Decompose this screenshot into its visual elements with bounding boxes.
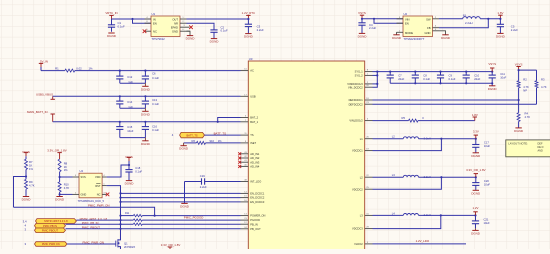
power port USB0_VBUS xyxy=(36,93,55,100)
resistor R1 0.02 1% xyxy=(55,66,93,72)
svg-text:1.8V: 1.8V xyxy=(472,113,478,117)
svg-text:OUT: OUT xyxy=(172,17,178,21)
pin stubs U4 xyxy=(73,175,107,194)
wire R8 junction to U4 SVS xyxy=(59,172,73,182)
resistor R4 4.7K xyxy=(517,100,530,122)
wire VDCDC1 feedback xyxy=(373,139,442,151)
svg-text:10uF: 10uF xyxy=(484,221,490,225)
svg-text:2.2uF: 2.2uF xyxy=(200,185,207,189)
node junction VRTC xyxy=(131,18,133,20)
ground DGND C2 xyxy=(210,39,220,44)
svg-text:R11: R11 xyxy=(125,212,130,215)
svg-text:AD_IN1: AD_IN1 xyxy=(250,152,260,156)
svg-text:GND: GND xyxy=(172,30,178,34)
net label PMIC_PWR_ON bottom xyxy=(83,240,105,244)
transistor Q1 2N7002 xyxy=(114,238,136,249)
svg-text:DGND: DGND xyxy=(141,112,151,116)
power port 1.2V_RTC xyxy=(242,11,255,20)
wire PB_IN row xyxy=(66,223,134,225)
svg-text:R9: R9 xyxy=(29,180,33,184)
svg-text:FB: FB xyxy=(427,26,431,30)
svg-text:10uF: 10uF xyxy=(484,144,490,148)
svg-text:C13: C13 xyxy=(152,98,157,102)
svg-text:AC: AC xyxy=(250,69,254,73)
ground DGND row2 xyxy=(141,108,151,116)
svg-text:U2: U2 xyxy=(404,12,408,16)
svg-text:VDCDC2: VDCDC2 xyxy=(352,187,363,191)
svg-text:SYS_2: SYS_2 xyxy=(355,73,364,77)
svg-text:0.1uF: 0.1uF xyxy=(152,102,159,106)
svg-text:VDCDC1: VDCDC1 xyxy=(352,149,363,153)
svg-text:RST: RST xyxy=(95,184,101,188)
net label MSTR_nRST_3.3_1.8 xyxy=(80,217,108,221)
power port MAIN_BATT_IN xyxy=(27,110,55,122)
wire PWR_ON to Q1 gate xyxy=(67,243,114,245)
inductor L4 2.2uH xyxy=(392,211,431,217)
svg-text:NP: NP xyxy=(523,88,527,92)
resistor R3 4.7K xyxy=(535,78,547,89)
svg-text:USB: USB xyxy=(250,94,256,98)
resistor R15 PGOOD row xyxy=(133,219,240,221)
svg-text:GND: GND xyxy=(81,192,87,196)
wire POWER_ON route xyxy=(14,207,241,217)
svg-text:GND: GND xyxy=(425,31,431,35)
op-amp U4 TPS3808 supervisor body xyxy=(78,169,105,203)
power port 3.3V_OR_1.8V bottom xyxy=(161,243,181,249)
ground DGND R4 xyxy=(514,128,524,133)
svg-text:EPAD: EPAD xyxy=(171,26,178,30)
svg-text:DGND: DGND xyxy=(141,142,151,146)
wire U1 GND down xyxy=(187,31,191,35)
wire U2 FB feedback xyxy=(439,19,488,28)
svg-text:AND: AND xyxy=(538,150,543,153)
svg-text:DEFDCDC1: DEFDCDC1 xyxy=(349,98,364,102)
svg-text:MODE: MODE xyxy=(405,31,413,35)
svg-text:VSYS: VSYS xyxy=(22,150,30,154)
svg-text:1K: 1K xyxy=(29,163,32,167)
capacitor C17 10uF xyxy=(472,139,490,153)
svg-text:AD_IN4: AD_IN4 xyxy=(250,164,260,168)
wire R9 to ground xyxy=(25,189,27,196)
svg-text:NR: NR xyxy=(174,22,178,26)
svg-text:2.2uF: 2.2uF xyxy=(257,28,264,32)
svg-text:U4: U4 xyxy=(80,169,84,173)
svg-text:DGND: DGND xyxy=(392,36,402,40)
resistor R10 4.7K xyxy=(58,182,69,192)
resistor R2 4.7K NP xyxy=(517,78,529,93)
power port 1.2V xyxy=(473,206,479,215)
harness port MSTR_nRST xyxy=(36,219,77,224)
svg-text:R1: R1 xyxy=(55,66,59,70)
capacitor C2 0.1uF xyxy=(210,25,228,39)
svg-text:DGND: DGND xyxy=(186,37,196,41)
wire L3 pin to L4 coil xyxy=(373,214,404,216)
ground DGND C1 xyxy=(107,33,117,38)
no-connect X U4 NC xyxy=(106,193,110,197)
svg-text:22uF: 22uF xyxy=(474,77,480,81)
ground DGND R9 xyxy=(22,197,32,202)
svg-text:Q1: Q1 xyxy=(124,241,128,245)
svg-text:0.1uF: 0.1uF xyxy=(152,128,159,132)
ground DGND R10 xyxy=(55,197,65,202)
svg-text:DGND: DGND xyxy=(471,154,481,158)
resistor R5 0 xyxy=(402,116,425,122)
svg-text:4.7K: 4.7K xyxy=(525,115,531,119)
net label PMIC_PWR_ON mid xyxy=(88,203,110,207)
ground DGND U1 xyxy=(186,36,196,41)
svg-text:BATT_TS: BATT_TS xyxy=(186,133,197,137)
wire PBOUT row xyxy=(66,228,241,230)
wire U1 OUT to 1.2V_RTC xyxy=(187,18,249,20)
resistor R14 on POWER_ON row xyxy=(119,212,154,217)
capacitor C13 0.1uF xyxy=(142,96,160,108)
capacitor C9 0.1uF xyxy=(437,71,456,85)
svg-text:PB_OUT: PB_OUT xyxy=(250,227,261,231)
svg-text:C8: C8 xyxy=(423,74,427,78)
svg-text:EN_DCDC1: EN_DCDC1 xyxy=(250,191,265,195)
wire VINLDO to R5 xyxy=(373,120,409,122)
capacitor C10 22uF xyxy=(463,71,481,85)
capacitor C4 2.2uF xyxy=(358,19,376,33)
svg-text:DGND: DGND xyxy=(179,147,189,151)
wire 5V_IN to R1 xyxy=(41,70,65,72)
net label PMIC_PB_IN xyxy=(82,221,99,225)
wire BATT_TS to TS pin xyxy=(205,132,241,136)
svg-text:U3: U3 xyxy=(249,57,253,61)
svg-text:DGND: DGND xyxy=(496,34,506,38)
svg-text:TS: TS xyxy=(250,133,254,137)
wire C19 to ground xyxy=(184,182,186,204)
wire VLDO2 to 1.2V_LDO xyxy=(373,243,467,245)
wire EN_DCDC3 xyxy=(119,201,240,203)
inductor L2 2.2uH xyxy=(392,135,431,141)
svg-text:VSYS: VSYS xyxy=(358,11,366,15)
svg-text:EN_DCDC2: EN_DCDC2 xyxy=(250,196,265,200)
ground DGND C18 xyxy=(125,181,135,186)
svg-text:C9: C9 xyxy=(449,74,453,78)
wire R7 R9 junction xyxy=(14,170,28,208)
svg-text:DGND: DGND xyxy=(471,191,481,195)
power port 3.3V_OR_1.8V output xyxy=(466,168,486,177)
svg-text:C12: C12 xyxy=(127,75,132,79)
svg-text:C19: C19 xyxy=(200,174,205,178)
resistor R7 1K 1% xyxy=(25,159,34,171)
svg-text:0.02: 0.02 xyxy=(76,66,82,70)
svg-text:AD_IN2: AD_IN2 xyxy=(250,156,260,160)
resistor R9 4.7K xyxy=(25,179,35,189)
svg-text:1.2V_LDO: 1.2V_LDO xyxy=(416,239,430,243)
svg-text:PB_IN: PB_IN xyxy=(250,222,258,226)
no-connect X U1 EPAD xyxy=(189,25,193,29)
svg-text:U1: U1 xyxy=(152,12,156,16)
svg-text:DGND: DGND xyxy=(441,36,451,40)
power port 1.8V LDO input xyxy=(472,113,478,121)
pin stubs U3 right with numbers and names xyxy=(347,70,372,246)
wire VDCDC3 feedback xyxy=(373,215,441,228)
wire PGOOD row xyxy=(76,219,133,221)
power port VSYS caps xyxy=(488,62,496,72)
svg-text:0.1uF: 0.1uF xyxy=(449,77,456,81)
wire branch to BAT_2 pin xyxy=(218,118,241,122)
svg-text:C11: C11 xyxy=(500,72,505,76)
capacitor C15 10uF xyxy=(116,122,134,138)
svg-text:L2: L2 xyxy=(392,135,395,139)
wire C11 to ground xyxy=(491,83,493,85)
power port VSYS U4 xyxy=(125,155,133,165)
pin stubs U1 right xyxy=(180,17,190,31)
resistor R16 PB_IN row xyxy=(133,223,240,225)
ground DGND C23 xyxy=(471,228,481,235)
svg-text:VSYS: VSYS xyxy=(515,62,523,66)
svg-text:BATT_TS: BATT_TS xyxy=(214,132,227,136)
svg-text:MAIN_BATT_IN: MAIN_BATT_IN xyxy=(27,110,48,114)
wire VSYS to U2 VIN xyxy=(362,18,403,20)
ground DGND U2 MODE xyxy=(392,35,402,40)
svg-text:4.7K: 4.7K xyxy=(541,85,547,89)
svg-text:DGND: DGND xyxy=(514,129,524,133)
svg-text:0.1uF: 0.1uF xyxy=(118,24,125,28)
svg-text:5V_IN: 5V_IN xyxy=(40,60,48,64)
svg-text:2N7002X: 2N7002X xyxy=(124,245,135,249)
svg-text:L4: L4 xyxy=(392,211,395,215)
svg-text:C15: C15 xyxy=(127,125,132,129)
ground DGND C11 xyxy=(488,86,498,91)
svg-text:4.7K: 4.7K xyxy=(523,85,529,89)
svg-text:USB0_VBUS: USB0_VBUS xyxy=(36,93,53,97)
wire R10 to ground xyxy=(59,192,61,196)
svg-text:4.7K: 4.7K xyxy=(29,184,35,188)
wire DEFDCDC2 to R3 xyxy=(373,88,537,104)
wire INT_LDO to C19 xyxy=(205,181,241,183)
harness port BATT_TS xyxy=(172,132,205,137)
svg-text:2.2uF: 2.2uF xyxy=(511,28,518,32)
svg-text:L1: L1 xyxy=(463,13,467,17)
svg-text:R6: R6 xyxy=(192,139,196,143)
svg-text:TPS3808G01_DCK_5: TPS3808G01_DCK_5 xyxy=(78,199,105,203)
svg-text:PMIC_PGOOD: PMIC_PGOOD xyxy=(184,216,204,220)
no-connect X U1 NC xyxy=(143,29,147,33)
capacitor C19 2.2uF horizontal xyxy=(185,174,208,189)
svg-text:DEFDCDC2: DEFDCDC2 xyxy=(349,102,364,106)
svg-text:4.7K: 4.7K xyxy=(64,186,70,190)
wire U4 GND to R10 ground xyxy=(60,193,73,195)
svg-text:SYS_1: SYS_1 xyxy=(355,70,364,74)
wire VSYS to U4 VDD xyxy=(107,164,131,177)
svg-text:1%: 1% xyxy=(29,167,33,171)
svg-text:2.2uF: 2.2uF xyxy=(369,26,376,30)
svg-text:0.1uF: 0.1uF xyxy=(135,169,142,173)
svg-text:PGOOD: PGOOD xyxy=(250,218,260,222)
svg-text:SVS: SVS xyxy=(81,175,86,179)
svg-text:TPS79912: TPS79912 xyxy=(152,37,166,41)
wire cap commons row3 xyxy=(120,137,146,139)
harness port PMIC_PB_IN xyxy=(35,223,66,228)
inductor L1 2.2uH xyxy=(463,13,481,25)
wire VSYS to R2 R3 tops xyxy=(518,69,537,81)
node junction U2 EN xyxy=(373,18,375,20)
sheet entry numbers 3 4 xyxy=(23,220,27,232)
svg-text:POWER_ON: POWER_ON xyxy=(250,214,265,218)
harness port PMIC_PWR_ON xyxy=(24,242,67,247)
svg-text:R5: R5 xyxy=(402,116,406,120)
svg-text:DGND: DGND xyxy=(125,182,135,186)
power port VSYS pullups xyxy=(515,62,523,70)
svg-text:DGND: DGND xyxy=(358,34,368,38)
svg-text:VLDO2: VLDO2 xyxy=(354,242,363,246)
op-amp U3 PMIC body xyxy=(248,57,364,253)
wire VDCDC2 feedback xyxy=(373,177,442,189)
svg-text:DGND: DGND xyxy=(471,231,481,235)
svg-text:R2: R2 xyxy=(523,78,527,82)
pin stubs U2 xyxy=(397,17,440,33)
svg-text:DGND: DGND xyxy=(488,87,498,91)
svg-text:0.1uF: 0.1uF xyxy=(221,29,228,33)
power port VSYS divider1 xyxy=(22,150,30,159)
power port 5V_IN xyxy=(39,60,48,71)
svg-text:EN: EN xyxy=(405,22,409,26)
wire R6 to ISET pin xyxy=(206,142,241,144)
layout note box xyxy=(506,140,550,157)
svg-text:1%: 1% xyxy=(89,66,94,70)
svg-text:BAT_2: BAT_2 xyxy=(250,116,258,120)
wire cap commons row2 xyxy=(120,107,146,109)
svg-text:VSYS: VSYS xyxy=(125,155,133,159)
ground DGND U2 GND xyxy=(441,35,451,40)
svg-text:PMIC PB IN: PMIC PB IN xyxy=(43,224,57,228)
svg-text:0.1uF: 0.1uF xyxy=(152,76,159,80)
svg-text:INT_LDO: INT_LDO xyxy=(250,180,261,184)
capacitor C16 0.1uF xyxy=(142,122,160,138)
wire ISET left xyxy=(184,142,197,144)
svg-text:3.3V_OR_1.8V: 3.3V_OR_1.8V xyxy=(466,168,486,172)
svg-text:22uF: 22uF xyxy=(398,77,404,81)
svg-text:ISET: ISET xyxy=(250,141,256,145)
ground DGND row1 xyxy=(141,83,151,91)
wire U2 SW to L1 xyxy=(439,18,463,20)
svg-text:SW: SW xyxy=(426,17,431,21)
svg-text:C6: C6 xyxy=(152,72,156,76)
capacitor C1 0.1uF xyxy=(108,19,125,32)
net label 1.2V_LDO xyxy=(416,239,430,243)
svg-text:1.2V_RTC: 1.2V_RTC xyxy=(242,11,255,15)
svg-text:VSYS: VSYS xyxy=(488,62,496,66)
svg-text:MSTR nRST 3.3 1.8: MSTR nRST 3.3 1.8 xyxy=(44,219,68,223)
svg-text:VDCDC3: VDCDC3 xyxy=(352,227,363,231)
svg-text:EN: EN xyxy=(153,22,157,26)
svg-text:1K: 1K xyxy=(64,165,67,169)
capacitor C3 2.2uF xyxy=(245,19,264,33)
svg-text:3.3V_OR_1.8V: 3.3V_OR_1.8V xyxy=(47,149,67,153)
svg-text:DGND: DGND xyxy=(210,40,220,44)
svg-text:L3: L3 xyxy=(392,173,395,177)
svg-text:R3: R3 xyxy=(541,78,545,82)
ground DGND C3 xyxy=(244,34,254,39)
wire R1 to AC pin xyxy=(75,70,241,72)
svg-text:10uF: 10uF xyxy=(500,75,506,79)
svg-text:NC: NC xyxy=(97,192,101,196)
wire SYS rail bracket xyxy=(373,71,493,88)
svg-text:VIN: VIN xyxy=(405,17,410,21)
wire SYS bottom rail xyxy=(390,82,492,84)
capacitor C7 22uF xyxy=(387,71,405,84)
ground DGND row3 xyxy=(141,138,151,146)
svg-text:PMIC PBOUT: PMIC PBOUT xyxy=(42,229,59,233)
resistor R6 910 1% xyxy=(192,139,223,144)
svg-text:C18: C18 xyxy=(135,166,140,170)
wire U4 RST to EN_DCDC bus xyxy=(107,186,122,238)
pin stubs U1 left xyxy=(145,17,152,31)
svg-text:DGND: DGND xyxy=(180,204,190,208)
capacitor C18 0.1uF xyxy=(125,165,142,180)
wire USB0_VBUS to USB pin xyxy=(53,95,241,97)
svg-text:VRTC_IN: VRTC_IN xyxy=(105,11,117,15)
svg-text:10uF: 10uF xyxy=(484,183,490,187)
svg-text:C7: C7 xyxy=(398,74,402,78)
ground DGND C17 xyxy=(471,153,481,158)
svg-text:EN_DCDC3: EN_DCDC3 xyxy=(250,200,265,204)
capacitor C12 1uF xyxy=(116,71,133,84)
svg-text:R4: R4 xyxy=(525,112,529,116)
wire R5 to 1.8V xyxy=(418,120,475,122)
ground DGND C20 xyxy=(471,190,481,195)
capacitor C6 0.1uF xyxy=(142,71,160,84)
resistor R8 1K 1% xyxy=(58,159,68,172)
svg-text:C17: C17 xyxy=(484,141,489,145)
capacitor C20 10uF xyxy=(472,177,490,190)
wire EN_DCDC2 xyxy=(119,197,240,199)
svg-text:1%: 1% xyxy=(64,168,68,172)
svg-text:TPS62230DRYT: TPS62230DRYT xyxy=(404,37,425,41)
power port VRTC_IN xyxy=(105,11,117,19)
wire L1 to 1.8V output xyxy=(480,18,500,20)
svg-text:DGND: DGND xyxy=(141,87,151,91)
wire L2 to 3.3V node xyxy=(419,138,477,140)
svg-text:PMIC PWR ON: PMIC PWR ON xyxy=(42,242,60,246)
svg-text:DGND: DGND xyxy=(55,198,65,202)
wire cap commons row1 xyxy=(120,82,146,84)
power port VSYS U2 xyxy=(358,11,366,20)
svg-text:C10: C10 xyxy=(474,74,479,78)
svg-text:VIN_DCDC2: VIN_DCDC2 xyxy=(348,85,363,89)
capacitor C14 1uF xyxy=(116,96,133,109)
svg-text:LAYOUT NOTE:: LAYOUT NOTE: xyxy=(508,142,528,146)
wire U1 NR to C2 xyxy=(187,23,215,25)
wire EN_DCDC1 xyxy=(119,192,240,194)
svg-text:DGND: DGND xyxy=(107,34,117,38)
svg-text:1.8V: 1.8V xyxy=(497,11,503,15)
wire DEFDCDC1 to R2 R4 xyxy=(373,88,520,101)
svg-text:VINLDO1/2: VINLDO1/2 xyxy=(349,119,363,123)
svg-text:2.2uH: 2.2uH xyxy=(465,21,472,25)
svg-text:R8: R8 xyxy=(64,161,68,165)
op-amp U1 TPS79912 regulator body xyxy=(151,12,180,41)
svg-text:BAT_1: BAT_1 xyxy=(250,120,258,124)
ground DGND C19 xyxy=(180,203,190,208)
svg-text:AD_IN3: AD_IN3 xyxy=(250,160,260,164)
ground DGND C4 xyxy=(358,33,368,38)
capacitor C8 0.1uF xyxy=(412,71,431,85)
wire U2 MODE to ground xyxy=(396,32,398,34)
power port 1.8V U2 output xyxy=(497,11,503,20)
no-connect X AD_IN pins xyxy=(238,152,241,168)
capacitor C21 10uF xyxy=(472,215,490,228)
wire L4 to 1.2V node xyxy=(419,214,477,216)
wire L1 pin to L2 coil xyxy=(373,138,404,140)
wire VRTC_IN to U1 IN xyxy=(112,18,152,20)
svg-text:10uF: 10uF xyxy=(127,129,133,133)
capacitor C11 10uF xyxy=(489,71,507,85)
svg-text:C14: C14 xyxy=(127,100,132,104)
